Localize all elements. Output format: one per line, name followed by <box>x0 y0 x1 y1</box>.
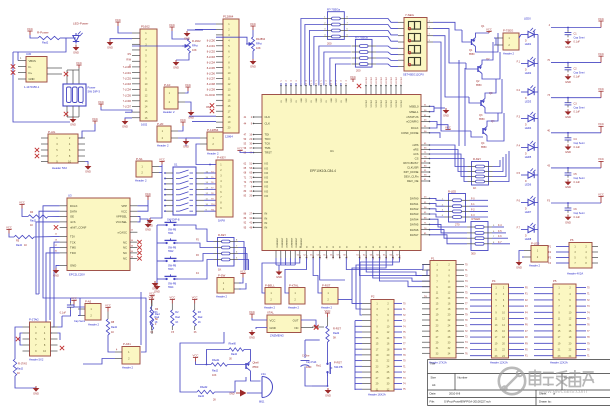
wire <box>244 350 251 362</box>
transistor Q1 8550 <box>472 38 476 47</box>
ground <box>149 218 151 220</box>
svg-text:TCK: TCK <box>265 142 271 146</box>
svg-text:8-LCD8: 8-LCD8 <box>207 83 216 86</box>
svg-text:1K: 1K <box>218 268 221 272</box>
svg-text:10K: 10K <box>256 46 261 50</box>
wire <box>195 28 216 30</box>
svg-text:8-LCD6: 8-LCD6 <box>207 72 216 75</box>
ground <box>196 29 203 31</box>
svg-text:5K: 5K <box>333 336 336 340</box>
ground <box>567 39 569 41</box>
svg-text:R?-7SEGa: R?-7SEGa <box>327 8 341 12</box>
svg-text:R-Power: R-Power <box>37 31 49 35</box>
svg-text:5K: 5K <box>155 318 158 321</box>
switch SW-Power DIP-3 <box>76 65 81 68</box>
svg-text:TRST: TRST <box>265 151 273 155</box>
svg-text:VCC: VCC <box>169 23 175 27</box>
wire <box>196 144 210 165</box>
svg-text:GND: GND <box>33 392 39 396</box>
svg-text:VCC: VCC <box>325 309 331 313</box>
svg-text:Rad2: Rad2 <box>198 395 205 398</box>
svg-text:P-KEY: P-KEY <box>217 156 226 160</box>
no-connect nINIT_CONF <box>54 225 58 229</box>
wire <box>15 327 23 359</box>
svg-text:VCC: VCC <box>149 291 155 295</box>
svg-text:Rad2: Rad2 <box>212 370 219 373</box>
svg-text:LED5: LED5 <box>525 155 532 159</box>
wire <box>108 337 115 352</box>
svg-text:SW3: SW3 <box>168 268 174 271</box>
wire <box>60 37 76 39</box>
svg-text:CURRENT: CURRENT <box>282 237 284 248</box>
svg-text:Rad2: Rad2 <box>17 368 24 371</box>
svg-text:VCC: VCC <box>598 122 604 126</box>
svg-text:A4: A4 <box>432 383 436 387</box>
svg-text:8550: 8550 <box>469 53 475 56</box>
svg-text:10K: 10K <box>212 374 217 377</box>
svg-text:GND: GND <box>325 394 331 398</box>
no-connect D+ <box>11 70 15 74</box>
push button SW4 SW-PB <box>163 274 178 279</box>
svg-text:2K: 2K <box>213 399 216 402</box>
ground <box>567 109 569 111</box>
FPGA bottom pins group B <box>299 251 301 258</box>
svg-text:VCCINT: VCCINT <box>376 99 378 107</box>
wire FPGA bottom to headers <box>262 258 300 293</box>
power net VCC <box>249 314 254 318</box>
svg-text:R-LED: R-LED <box>448 190 456 194</box>
svg-text:U3: U3 <box>68 194 72 198</box>
svg-text:nSTATUS: nSTATUS <box>406 115 418 119</box>
svg-text:0.1uF: 0.1uF <box>574 216 581 219</box>
transistor Q3 8550 <box>481 99 485 108</box>
resistor R-RST <box>327 317 329 326</box>
ground <box>176 53 189 60</box>
svg-text:Drawn by:: Drawn by: <box>539 399 552 403</box>
wire S1 to P-KEY <box>204 172 216 174</box>
power net VCC <box>169 27 174 31</box>
wire <box>15 376 36 388</box>
svg-text:P-JTAG: P-JTAG <box>29 318 39 322</box>
wire <box>189 115 216 117</box>
wire 7SEG bus down right side <box>458 60 460 146</box>
power net VCC <box>105 308 110 312</box>
svg-text:DATA7: DATA7 <box>410 233 419 237</box>
no-connect <box>312 326 324 328</box>
svg-text:MSEL0: MSEL0 <box>409 105 419 109</box>
ground <box>35 386 37 388</box>
svg-text:VCCINT: VCCINT <box>371 76 373 84</box>
ground <box>156 283 158 286</box>
svg-text:IN: IN <box>265 216 268 220</box>
svg-text:VCC: VCC <box>321 98 323 103</box>
svg-text:8550: 8550 <box>481 146 487 149</box>
svg-text:VCC: VCC <box>598 17 604 21</box>
svg-text:Header 2: Header 2 <box>529 264 541 268</box>
svg-text:DATA4: DATA4 <box>410 217 419 221</box>
svg-text:1K: 1K <box>473 186 476 190</box>
svg-text:VCC: VCC <box>71 296 77 300</box>
wire <box>83 359 115 365</box>
svg-text:R-JTAG: R-JTAG <box>18 362 27 366</box>
svg-text:TMS: TMS <box>70 246 76 250</box>
svg-text:P-LED: P-LED <box>531 242 539 246</box>
svg-text:GND: GND <box>346 98 348 103</box>
svg-text:R-RST: R-RST <box>333 327 341 331</box>
capacitor C3 0.1uF <box>551 97 601 99</box>
wire TMS rail <box>50 248 60 321</box>
svg-text:TMS: TMS <box>265 146 271 150</box>
svg-text:SW4: SW4 <box>168 286 174 289</box>
svg-text:P4: P4 <box>492 279 496 283</box>
no-connect <box>16 337 20 341</box>
capacitor C1 0.1uF <box>551 27 601 29</box>
wire <box>78 298 80 316</box>
svg-text:SW DIP-8: SW DIP-8 <box>167 218 180 222</box>
svg-text:GND: GND <box>73 51 79 55</box>
svg-text:DCLK: DCLK <box>411 126 419 130</box>
svg-text:GND: GND <box>70 123 76 127</box>
svg-text:Rad2: Rad2 <box>231 353 238 356</box>
wire nCS rail <box>36 222 60 294</box>
svg-text:GND: GND <box>276 275 282 279</box>
svg-text:GND: GND <box>145 228 151 232</box>
title block <box>428 360 610 406</box>
wire loop <box>180 332 224 392</box>
svg-text:DATA5: DATA5 <box>410 223 419 227</box>
ground <box>85 162 88 165</box>
svg-text:Qbell: Qbell <box>253 361 259 365</box>
svg-text:VCC: VCC <box>350 75 356 79</box>
no-connect pins <box>35 148 39 152</box>
svg-text:IN: IN <box>265 226 268 230</box>
svg-text:GND: GND <box>565 185 571 189</box>
wire <box>101 107 132 112</box>
wire <box>228 364 247 366</box>
wire FPGA top stubs <box>280 83 282 86</box>
svg-text:10K: 10K <box>192 48 197 52</box>
ground <box>252 51 254 59</box>
svg-text:LED6: LED6 <box>525 183 532 187</box>
power net VCC <box>71 301 76 305</box>
svg-text:U30: U30 <box>26 52 32 56</box>
capacitor C4 0.1uF <box>551 132 601 134</box>
svg-text:GND: GND <box>249 336 255 340</box>
svg-text:INIT_DONE: INIT_DONE <box>404 170 419 174</box>
power net VCC <box>159 162 164 165</box>
wire MSEL0 MSEL1 to GND <box>430 106 435 111</box>
svg-text:DATA2: DATA2 <box>410 207 419 211</box>
svg-text:nCS: nCS <box>413 152 419 156</box>
svg-text:0.1uF: 0.1uF <box>60 312 67 315</box>
svg-text:8-LCD3: 8-LCD3 <box>207 56 216 59</box>
svg-text:7-LCD5: 7-LCD5 <box>123 94 132 97</box>
wire bus to P2 <box>352 258 386 303</box>
svg-text:GND: GND <box>173 66 179 70</box>
ground <box>125 118 132 119</box>
wire P-RST to P2 <box>338 299 352 301</box>
push button SW2 SW-PB <box>163 238 178 243</box>
wire bus right <box>346 258 430 270</box>
wire <box>215 377 247 392</box>
svg-text:VCC: VCC <box>159 157 165 161</box>
svg-text:VCC: VCC <box>486 27 492 31</box>
svg-text:R-KEY: R-KEY <box>218 233 226 237</box>
svg-text:VCC: VCC <box>27 27 33 31</box>
svg-text:www.elecfans.com: www.elecfans.com <box>538 389 587 395</box>
wire <box>13 52 70 122</box>
svg-text:LED3: LED3 <box>525 100 532 104</box>
svg-text:VCCSEL: VCCSEL <box>116 220 128 224</box>
wire <box>13 38 66 52</box>
svg-text:Title: Title <box>430 362 436 366</box>
svg-text:P-12864: P-12864 <box>207 128 219 132</box>
power net VCC <box>325 313 330 317</box>
power net VCC <box>240 274 245 278</box>
svg-text:Header 5X2: Header 5X2 <box>29 358 44 362</box>
svg-text:nCASC: nCASC <box>118 230 127 234</box>
svg-text:ZNZMENG: ZNZMENG <box>270 334 284 338</box>
svg-text:VCCINT: VCCINT <box>381 99 383 107</box>
svg-text:200: 200 <box>356 69 361 73</box>
svg-text:VCC: VCC <box>306 98 308 103</box>
wire button rail <box>156 225 158 283</box>
svg-text:GND: GND <box>29 77 35 81</box>
svg-text:DATA0: DATA0 <box>410 197 419 201</box>
wire <box>192 121 216 123</box>
resistor R8 <box>106 319 109 335</box>
svg-text:VCCINT: VCCINT <box>371 99 373 107</box>
ground <box>445 108 447 110</box>
svg-text:VCC: VCC <box>598 87 604 91</box>
ground <box>75 45 77 48</box>
wire bus to R-7SEGa <box>301 19 324 84</box>
svg-text:VCCINT: VCCINT <box>386 99 388 107</box>
wire <box>140 292 142 345</box>
capacitor C6 0.1uF <box>551 202 601 204</box>
svg-text:P-20: P-20 <box>157 122 164 126</box>
svg-text:8-LCD4: 8-LCD4 <box>207 61 216 64</box>
svg-text:Cap Semi: Cap Semi <box>574 72 585 75</box>
ground <box>327 388 329 390</box>
svg-text:270: 270 <box>455 223 460 227</box>
potentiometer R-12864 <box>216 37 250 44</box>
svg-text:IN: IN <box>265 212 268 216</box>
svg-text:Cap Semi: Cap Semi <box>574 177 585 180</box>
svg-text:XTAL: XTAL <box>267 311 274 315</box>
svg-text:Header 16X2A: Header 16X2A <box>368 393 386 397</box>
svg-text:VCCINT: VCCINT <box>366 76 368 84</box>
svg-text:NC: NC <box>123 240 127 244</box>
potentiometer R-1602 <box>132 45 186 47</box>
svg-text:CS: CS <box>415 157 419 161</box>
svg-text:LED1: LED1 <box>525 42 532 46</box>
svg-text:1KP8: 1KP8 <box>218 219 225 223</box>
svg-text:RPot: RPot <box>192 44 198 48</box>
svg-text:8550: 8550 <box>476 84 482 87</box>
svg-text:Header 12X2A: Header 12X2A <box>490 361 508 365</box>
resistor R2 <box>170 300 175 304</box>
svg-text:D+: D+ <box>29 71 33 75</box>
svg-text:P-A5: P-A5 <box>85 300 92 304</box>
FPGA bottom pins group C <box>359 251 361 258</box>
svg-text:nRS: nRS <box>413 148 419 152</box>
power net VCC <box>27 31 32 35</box>
svg-text:0.1uF: 0.1uF <box>574 111 581 114</box>
svg-text:SW1: SW1 <box>168 232 174 235</box>
wire DATA0-3 to R-LED <box>430 198 445 200</box>
svg-text:Cap Semi: Cap Semi <box>574 107 585 110</box>
svg-text:1K: 1K <box>30 224 33 227</box>
wire <box>522 256 524 258</box>
svg-text:TDI: TDI <box>265 133 270 137</box>
ground <box>186 137 200 139</box>
svg-text:Date:: Date: <box>430 392 437 396</box>
resistor R3 <box>192 300 197 304</box>
svg-text:U1: U1 <box>330 149 334 153</box>
svg-text:1K: 1K <box>17 372 20 375</box>
power net VCC <box>92 121 97 124</box>
svg-text:OE: OE <box>70 215 74 219</box>
svg-text:VCCINT: VCCINT <box>401 99 403 107</box>
svg-text:P-S1: P-S1 <box>136 157 143 161</box>
wire 7SEG to transistors <box>433 22 462 30</box>
svg-text:1K: 1K <box>198 321 201 324</box>
svg-text:CLK: CLK <box>265 122 271 126</box>
wire to P-LED <box>537 240 539 246</box>
svg-text:LS1: LS1 <box>261 372 266 376</box>
svg-text:D-: D- <box>29 65 32 69</box>
svg-text:CURRENT: CURRENT <box>296 237 298 248</box>
svg-text:GND: GND <box>331 98 333 103</box>
ground <box>519 251 524 261</box>
power net VCC <box>185 87 190 91</box>
svg-text:OUT: OUT <box>293 319 299 323</box>
ground <box>276 264 295 266</box>
svg-text:Cap Pol3: Cap Pol3 <box>306 361 317 364</box>
svg-text:Rst1: Rst1 <box>316 365 322 368</box>
svg-text:Header 5X2: Header 5X2 <box>52 166 67 170</box>
svg-text:VCCINT: VCCINT <box>391 76 393 84</box>
svg-text:GND: GND <box>565 80 571 84</box>
svg-text:DATA1: DATA1 <box>410 202 419 206</box>
svg-text:GND: GND <box>152 287 158 291</box>
svg-text:VCCINT: VCCINT <box>366 99 368 107</box>
svg-text:VCC: VCC <box>115 18 121 22</box>
svg-text:GND: GND <box>443 114 449 118</box>
svg-text:CONF_DONE: CONF_DONE <box>401 131 419 135</box>
svg-text:VCC: VCC <box>98 100 104 104</box>
transistor Q-bell 8550 <box>246 362 250 371</box>
svg-text:Rad: Rad <box>155 313 160 316</box>
svg-text:VCC: VCC <box>250 22 256 26</box>
watermark elecfans logo <box>499 368 594 395</box>
ground <box>56 265 60 268</box>
svg-text:VCC: VCC <box>180 118 186 122</box>
svg-text:LED-Power: LED-Power <box>73 22 88 26</box>
wire <box>159 172 162 174</box>
svg-text:LED4: LED4 <box>525 126 532 130</box>
svg-text:NC: NC <box>123 251 127 255</box>
resistor R5 <box>6 230 11 234</box>
svg-text:P12864: P12864 <box>223 15 234 19</box>
svg-text:Header 2: Header 2 <box>163 110 175 114</box>
ground <box>567 144 569 146</box>
wire P2 left feed <box>355 320 362 322</box>
svg-text:P1: P1 <box>431 257 435 261</box>
svg-text:nINIT_CONF: nINIT_CONF <box>70 226 87 230</box>
svg-text:VCC: VCC <box>240 269 246 273</box>
power net VCC <box>98 104 103 107</box>
no-connect NC pins <box>137 240 141 244</box>
svg-text:R-KEY: R-KEY <box>473 157 481 161</box>
FPGA top VCCINT pins <box>365 86 367 95</box>
wire nCONFIG <box>430 133 441 138</box>
svg-text:DCLK: DCLK <box>70 204 78 208</box>
svg-text:DATA6: DATA6 <box>410 228 419 232</box>
svg-text:Header 12X2A: Header 12X2A <box>550 361 568 365</box>
no-connect <box>357 84 361 88</box>
svg-text:12864: 12864 <box>225 135 233 139</box>
svg-text:nWS: nWS <box>412 143 418 147</box>
svg-text:P1602: P1602 <box>141 25 150 29</box>
power net VCC <box>149 296 154 300</box>
svg-text:8-LCD9: 8-LCD9 <box>207 89 216 92</box>
svg-text:GND: GND <box>250 65 256 69</box>
svg-text:RDYnBUSY: RDYnBUSY <box>403 161 418 165</box>
svg-text:Cap Semi: Cap Semi <box>574 37 585 40</box>
svg-text:GND: GND <box>316 98 318 103</box>
capacitor C-One 10uF <box>304 340 306 358</box>
ground <box>185 102 191 110</box>
push button SW3 SW-PB <box>163 256 178 261</box>
svg-text:GND: GND <box>184 37 190 41</box>
svg-text:Q1: Q1 <box>481 24 485 28</box>
power net VCC <box>350 79 355 82</box>
svg-text:LED0: LED0 <box>524 17 531 21</box>
svg-text:10uF: 10uF <box>306 366 312 369</box>
svg-text:VCC: VCC <box>192 295 198 299</box>
svg-text:VCC: VCC <box>185 83 191 87</box>
wire R-KEY to P-SW <box>238 242 244 271</box>
capacitor C2 0.1uF <box>551 62 601 64</box>
resistor R4 <box>19 205 24 209</box>
svg-text:VCC: VCC <box>92 117 98 121</box>
svg-text:VCCINT: VCCINT <box>396 76 398 84</box>
svg-text:Header 2: Header 2 <box>288 306 300 310</box>
svg-text:Header 2: Header 2 <box>503 52 515 56</box>
svg-text:7-LCD3: 7-LCD3 <box>123 83 132 86</box>
svg-text:VCC: VCC <box>237 147 243 151</box>
svg-text:SW2: SW2 <box>168 250 174 253</box>
no-connect D- <box>11 64 15 68</box>
ground speaker <box>247 392 262 394</box>
svg-text:Rbell2: Rbell2 <box>200 385 208 389</box>
svg-text:LED7: LED7 <box>525 210 532 214</box>
wire <box>312 385 328 387</box>
svg-text:1K: 1K <box>24 244 27 247</box>
svg-text:Cap Semi: Cap Semi <box>74 320 85 323</box>
svg-text:VCC: VCC <box>598 52 604 56</box>
svg-text:RST: RST <box>206 106 211 109</box>
svg-text:8-LCD10: 8-LCD10 <box>205 94 215 97</box>
svg-text:Cap Semi: Cap Semi <box>574 142 585 145</box>
power net VCC <box>145 196 150 200</box>
wire <box>78 124 95 138</box>
svg-text:VPPSEL: VPPSEL <box>116 215 127 219</box>
svg-text:P2: P2 <box>371 295 375 299</box>
svg-text:GND: GND <box>301 98 303 103</box>
